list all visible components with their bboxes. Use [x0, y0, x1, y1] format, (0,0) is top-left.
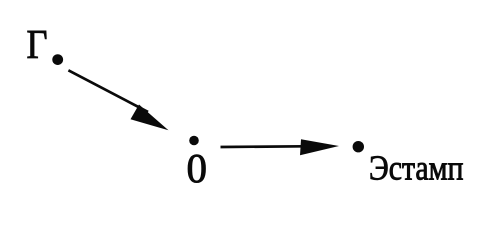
svg-text:Эстамп: Эстамп	[369, 149, 464, 188]
wire arrow О to Эстамп head	[300, 139, 339, 155]
wire arrow О to Эстамп shaft	[221, 145, 304, 148]
svg-text:Г: Г	[27, 21, 48, 67]
node Эстамп point	[353, 141, 364, 152]
node Г point	[52, 54, 63, 65]
svg-text:0: 0	[187, 145, 208, 191]
wire arrow Г to О shaft	[68, 70, 148, 112]
node О point	[189, 136, 199, 146]
wire arrow Г to О head	[131, 105, 169, 131]
